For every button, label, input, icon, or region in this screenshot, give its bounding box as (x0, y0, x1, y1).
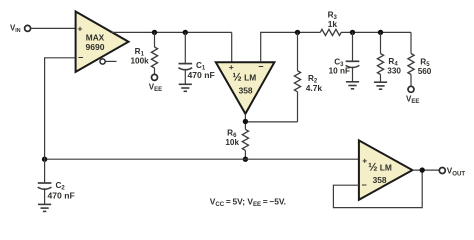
wire R3 right to R5 corner (341, 31, 411, 33)
svg-text:1k: 1k (328, 19, 338, 29)
junction U3 output / feedback (420, 167, 425, 172)
wire R2 bottom to U2 output (245, 121, 297, 123)
wire U3 output (412, 169, 438, 171)
svg-text:358: 358 (373, 175, 387, 185)
ground under R4 (374, 82, 387, 89)
svg-text:−: − (362, 180, 367, 190)
wire U1 output node A (110, 31, 232, 33)
svg-text:−: − (78, 53, 83, 63)
svg-text:560: 560 (418, 67, 432, 76)
capacitor C3 (352, 32, 354, 61)
svg-text:+: + (362, 155, 367, 165)
svg-text:−: − (258, 62, 263, 72)
pin Qbar inversion bubble of U1 (100, 59, 105, 64)
svg-text:100k: 100k (130, 56, 149, 65)
ground under C1 (179, 84, 192, 91)
wire node A down to U2 + input (231, 32, 233, 62)
capacitor C1 (184, 32, 186, 63)
node VEE terminal under R1 (152, 74, 158, 80)
junction node A / C1 (183, 30, 188, 35)
resistor R2 (297, 32, 299, 70)
wire feedback up to U1 - input (45, 58, 76, 159)
junction C2 / feedback (42, 157, 47, 162)
svg-text:330: 330 (387, 67, 401, 76)
capacitor C2 (44, 159, 46, 182)
svg-text:+: + (229, 62, 234, 72)
op-amp U2 1/2 LM358 (points down) (216, 62, 275, 114)
svg-text:9690: 9690 (85, 42, 104, 52)
resistor R5 (408, 54, 414, 75)
node VOUT terminal (439, 168, 445, 174)
wire U2 - input up and right to R3 (261, 32, 321, 62)
wire U3 feedback loop (333, 170, 422, 208)
wire Qbar stub (105, 60, 116, 62)
op-amp U3 1/2 LM358 (359, 140, 413, 199)
resistor R3 (horizontal) (320, 29, 341, 35)
junction R6 bottom on bus (243, 157, 248, 162)
svg-text:470 nF: 470 nF (188, 70, 215, 80)
svg-text:470 nF: 470 nF (48, 190, 75, 200)
ground under C2 (38, 204, 51, 211)
wire top rail corner down to R5 (410, 32, 412, 53)
node VEE terminal under R5 (408, 86, 414, 92)
svg-text:358: 358 (239, 85, 253, 95)
resistor R6 (242, 129, 248, 150)
svg-text:10 nF: 10 nF (329, 66, 350, 75)
junction R2 top (295, 30, 300, 35)
svg-text:10k: 10k (225, 138, 239, 147)
svg-text:+: + (78, 23, 83, 33)
junction U2 output (243, 119, 248, 124)
resistor R4 (380, 32, 382, 53)
junction node A / R1 (152, 30, 157, 35)
wire U2 output down to bus (244, 114, 246, 130)
ground under C3 (346, 82, 359, 89)
svg-text:½ LM: ½ LM (232, 72, 256, 84)
wire bottom bus (45, 158, 359, 160)
wire VIN to U1 + input (31, 27, 76, 29)
comparator U1 MAX9690 (76, 12, 129, 72)
junction R4 top (378, 30, 383, 35)
svg-text:4.7k: 4.7k (306, 83, 323, 93)
junction C3 top (350, 30, 355, 35)
node VIN terminal (25, 25, 31, 31)
resistor R1 (154, 32, 156, 47)
svg-text:½ LM: ½ LM (368, 161, 392, 173)
